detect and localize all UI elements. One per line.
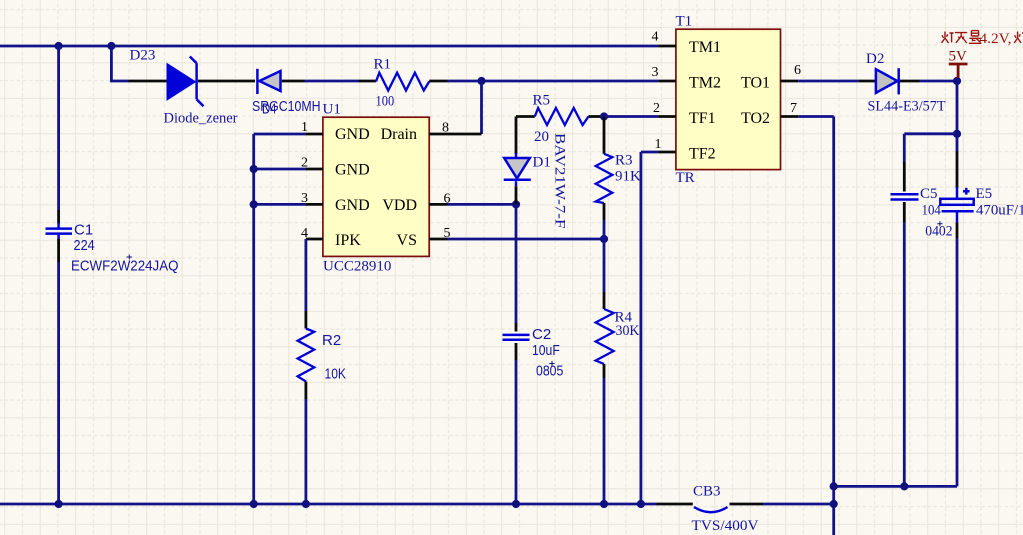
svg-text:VS: VS: [397, 232, 417, 249]
capacitor E5 electrolytic: [940, 151, 973, 238]
node junction rail TO2: [830, 500, 838, 508]
svg-text:GND: GND: [335, 126, 370, 143]
resistor R2: [298, 311, 315, 399]
svg-text:TO2: TO2: [741, 110, 770, 127]
node junction D23 branch: [107, 42, 115, 50]
wire to C5: [904, 132, 957, 135]
wire D4 to R1: [305, 80, 359, 83]
svg-text:R5: R5: [533, 93, 551, 109]
wire ground link right: [834, 485, 957, 488]
node junction 833/486: [830, 482, 838, 490]
wire between D23 and D4: [198, 80, 255, 83]
svg-text:GND: GND: [335, 162, 370, 179]
svg-text:IPK: IPK: [335, 232, 361, 249]
wire E5 down: [956, 238, 959, 486]
wire junction down to pin8: [480, 81, 483, 134]
svg-text:4: 4: [652, 30, 659, 45]
pin T1.3 TM2: [658, 80, 676, 83]
svg-text:20: 20: [534, 129, 549, 145]
svg-text:U1: U1: [323, 102, 341, 118]
svg-text:GND: GND: [335, 197, 370, 214]
op-amp U1 UCC28910 body: [323, 117, 429, 256]
pin U1.6 VDD: [429, 203, 447, 206]
svg-text:TM1: TM1: [689, 39, 721, 56]
pin T1.7 TO2: [781, 115, 799, 118]
transformer T1 body: [676, 29, 781, 169]
wire D23 branch: [111, 46, 128, 81]
node junction bus pin2: [250, 165, 258, 173]
svg-text:TR: TR: [676, 170, 695, 186]
capacitor C2: [503, 204, 530, 504]
svg-text:2: 2: [653, 101, 660, 116]
node junction above pin8: [477, 77, 485, 85]
net label red chinese note: [942, 31, 982, 44]
svg-text:5V: 5V: [949, 49, 968, 65]
resistor R5: [516, 108, 604, 125]
wire C1 vertical lower: [57, 262, 60, 504]
pin U1.8 Drain: [429, 133, 481, 136]
pin U1.3 GND: [305, 203, 323, 206]
svg-text:CB3: CB3: [693, 484, 721, 500]
svg-text:Diode_zener: Diode_zener: [164, 111, 238, 127]
wire R2 down to rail: [304, 399, 307, 504]
diode D23 Diode_zener: [129, 57, 204, 107]
node junction 904/486: [900, 482, 908, 490]
pin U1.5 VS: [429, 238, 447, 241]
node junction VS/R3/R4: [600, 235, 608, 243]
svg-text:SL44-E3/57T: SL44-E3/57T: [868, 99, 946, 115]
wire R3 to VS row: [603, 220, 606, 239]
svg-text:8: 8: [442, 121, 449, 136]
node junction 5V: [953, 77, 961, 85]
diode D1 BAV21W-7-F: [504, 117, 531, 205]
breaker CB3 TVS/400V: [657, 504, 764, 512]
capacitor C5: [891, 162, 919, 222]
wire TF2 vertical: [640, 152, 643, 504]
svg-text:10uF: 10uF: [532, 342, 560, 359]
svg-text:C5: C5: [920, 186, 938, 202]
marker cross C2: [549, 361, 554, 366]
svg-text:C2: C2: [532, 326, 551, 343]
svg-text:4.2V,: 4.2V,: [980, 31, 1012, 47]
svg-text:Drain: Drain: [381, 126, 417, 143]
wire U1 left bus vertical: [252, 134, 255, 504]
wire R1 to T1 pin3: [448, 80, 659, 83]
svg-text:91K: 91K: [615, 169, 641, 185]
svg-text:D1: D1: [533, 155, 551, 171]
svg-text:D4: D4: [262, 101, 277, 118]
node junction rail R4: [600, 500, 608, 508]
resistor R4: [596, 292, 614, 378]
svg-text:R1: R1: [374, 57, 392, 73]
svg-text:UCC28910: UCC28910: [323, 259, 391, 275]
marker cross C1: [127, 255, 133, 260]
svg-text:D2: D2: [866, 51, 884, 67]
resistor R1: [359, 73, 448, 91]
pin T1.6 TO1: [781, 80, 799, 83]
svg-text:R2: R2: [322, 332, 341, 349]
wire R4 down to rail: [603, 378, 606, 504]
wire D2 to 5V node: [920, 80, 958, 83]
svg-text:TO1: TO1: [741, 75, 770, 92]
wire pin1 row: [254, 133, 306, 136]
svg-text:104: 104: [922, 203, 942, 219]
svg-text:224: 224: [74, 237, 95, 254]
diode D2 SL44-E3/57T: [858, 68, 919, 94]
svg-text:0402: 0402: [925, 223, 952, 239]
svg-text:470uF/16: 470uF/16: [976, 202, 1023, 218]
svg-text:TF1: TF1: [689, 110, 716, 127]
svg-text:1: 1: [655, 137, 662, 152]
resistor R3: [596, 117, 613, 221]
node junction R5/R3/TF1: [600, 112, 608, 120]
wire C1 vertical upper: [57, 46, 60, 210]
svg-text:TVS/400V: TVS/400V: [692, 518, 759, 534]
wire R5 junction to T1 pin2: [604, 115, 658, 118]
node junction VDD/D1/C2: [512, 200, 520, 208]
pin T1.1 TF2: [658, 151, 676, 154]
wire VS row down to R4: [603, 239, 606, 292]
pin T1.4 TM1: [658, 45, 676, 48]
node junction top-left: [55, 42, 63, 50]
pin U1.2 GND: [305, 168, 323, 171]
svg-text:TF2: TF2: [689, 146, 716, 163]
wire VS to R3 bottom: [448, 238, 605, 241]
svg-text:4: 4: [301, 226, 308, 241]
svg-text:T1: T1: [676, 14, 693, 30]
svg-text:VDD: VDD: [382, 197, 417, 214]
wire pin3 row: [254, 203, 306, 206]
node junction C5 branch: [953, 130, 961, 138]
svg-text:ECWF2W224JAQ: ECWF2W224JAQ: [71, 258, 179, 275]
svg-text:TM2: TM2: [689, 75, 721, 92]
wire TF2 branch: [641, 151, 658, 154]
svg-text:7: 7: [790, 101, 797, 116]
svg-text:BAV21W-7-F: BAV21W-7-F: [552, 133, 568, 229]
node junction rail bus: [250, 500, 258, 508]
svg-text:C1: C1: [74, 222, 93, 239]
capacitor C1: [46, 210, 73, 262]
node junction rail C1: [55, 500, 63, 508]
wire 5V node down: [956, 81, 959, 151]
svg-text:D23: D23: [130, 48, 156, 64]
diode D4 SRGC10MH: [257, 69, 304, 94]
node junction rail C2: [512, 500, 520, 508]
wire pin2 row: [254, 168, 306, 171]
node junction rail TF2: [637, 500, 645, 508]
svg-text:30K: 30K: [616, 323, 640, 339]
svg-text:6: 6: [794, 63, 801, 78]
svg-text:3: 3: [652, 65, 659, 80]
wire rail right of CB3: [763, 503, 834, 506]
wire bottom rail: [0, 503, 657, 506]
power 5V symbol: [949, 64, 968, 78]
wire TO1 to D2: [798, 80, 858, 83]
wire C5 down: [903, 222, 906, 486]
pin T1.2 TF1: [658, 115, 676, 118]
wire C5 vertical upper: [903, 134, 906, 162]
svg-text:100: 100: [376, 94, 395, 110]
svg-text:R3: R3: [615, 153, 633, 169]
node junction rail R2: [302, 500, 310, 508]
marker cross C5: [937, 221, 942, 226]
wire IPK down: [304, 239, 307, 311]
wire VDD to D1 node: [448, 203, 517, 206]
svg-text:0805: 0805: [536, 363, 563, 380]
svg-text:10K: 10K: [325, 366, 347, 383]
node junction bus pin3: [250, 200, 258, 208]
svg-text:E5: E5: [976, 186, 993, 202]
pin U1.4 IPK: [306, 238, 323, 241]
wire TO2 vertical long: [798, 115, 833, 118]
pin U1.1 GND: [305, 133, 323, 136]
wire top rail: [0, 45, 658, 48]
